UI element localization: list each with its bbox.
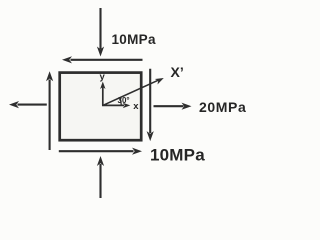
svg-text:10MPa: 10MPa bbox=[150, 146, 205, 165]
bottom shear arrow (right) bbox=[59, 150, 134, 152]
svg-text:30°: 30° bbox=[118, 96, 130, 105]
bottom normal stress arrow (up) bbox=[99, 164, 101, 198]
svg-text:y: y bbox=[100, 72, 106, 83]
left normal stress arrow (left) bbox=[18, 104, 47, 106]
svg-text:20MPa: 20MPa bbox=[199, 99, 246, 115]
right shear arrow (down) bbox=[149, 69, 151, 133]
svg-text:10MPa: 10MPa bbox=[112, 32, 156, 47]
top normal stress arrow (down) bbox=[99, 8, 101, 49]
svg-text:X’: X’ bbox=[171, 64, 184, 80]
x axis bbox=[102, 104, 124, 106]
left shear arrow (up) bbox=[49, 80, 51, 151]
svg-text:x: x bbox=[133, 101, 139, 112]
stress element square bbox=[60, 73, 142, 141]
X' rotated axis bbox=[103, 80, 159, 105]
y axis bbox=[102, 87, 104, 105]
angle arc bbox=[120, 98, 122, 105]
top shear arrow (left) bbox=[71, 59, 143, 61]
right normal stress arrow (right) bbox=[154, 105, 184, 107]
